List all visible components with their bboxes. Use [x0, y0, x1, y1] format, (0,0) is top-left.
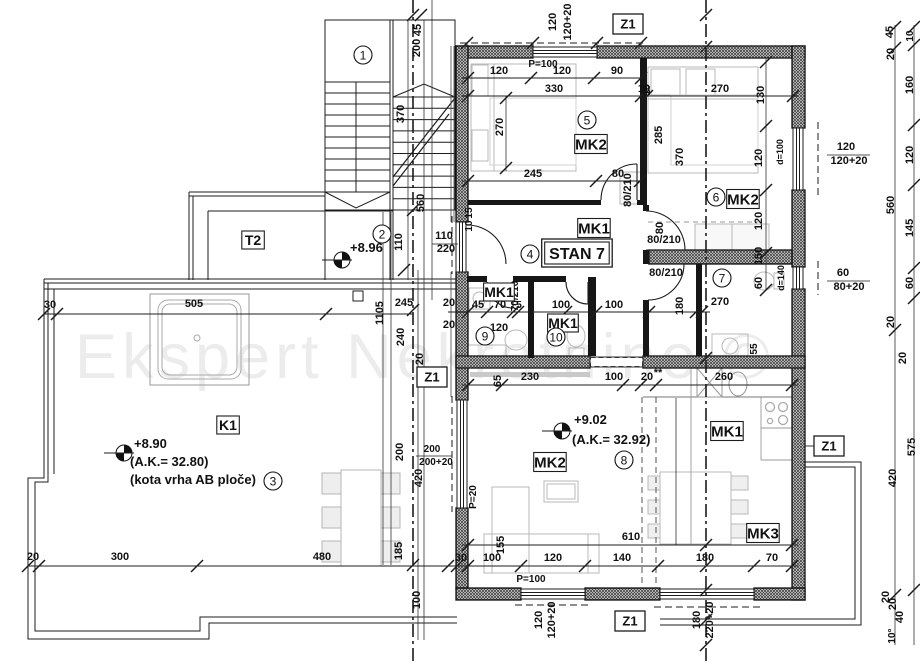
svg-text:610: 610: [622, 531, 640, 543]
svg-text:20: 20: [641, 371, 653, 383]
svg-text:180: 180: [696, 552, 714, 564]
svg-text:420: 420: [413, 469, 425, 487]
svg-text:270: 270: [494, 118, 506, 136]
svg-text:STAN 7: STAN 7: [549, 246, 605, 263]
svg-text:MK2: MK2: [575, 136, 607, 153]
svg-text:(kota vrha AB ploče): (kota vrha AB ploče): [130, 472, 256, 487]
svg-text:10°: 10°: [887, 628, 898, 643]
svg-text:130: 130: [755, 86, 767, 104]
svg-text:20: 20: [443, 319, 455, 331]
svg-text:120: 120: [547, 13, 559, 31]
svg-text:200+20: 200+20: [419, 457, 453, 468]
svg-text:575: 575: [906, 438, 918, 456]
svg-text:MK1: MK1: [484, 284, 514, 300]
svg-text:370: 370: [395, 105, 407, 123]
svg-text:160: 160: [904, 76, 916, 94]
svg-text:60: 60: [837, 267, 849, 279]
svg-text:100: 100: [552, 299, 570, 311]
svg-text:140: 140: [613, 552, 631, 564]
svg-text:80/210: 80/210: [649, 267, 683, 279]
svg-text:110: 110: [393, 233, 405, 251]
svg-text:120: 120: [753, 212, 765, 230]
svg-text:80: 80: [654, 222, 666, 234]
svg-text:145: 145: [904, 219, 916, 237]
svg-text:Z1: Z1: [424, 370, 439, 385]
svg-text:370: 370: [674, 148, 686, 166]
svg-text:20: 20: [897, 352, 909, 364]
svg-text:6: 6: [713, 190, 720, 204]
svg-text:(A.K.= 32.80): (A.K.= 32.80): [130, 454, 208, 469]
svg-text:+9.02: +9.02: [574, 412, 607, 427]
svg-text:185: 185: [393, 542, 405, 560]
svg-text:285: 285: [653, 126, 665, 144]
svg-text:100: 100: [605, 299, 623, 311]
svg-text:200: 200: [424, 444, 441, 455]
svg-text:30: 30: [455, 552, 467, 564]
svg-text:100: 100: [483, 552, 501, 564]
svg-text:2: 2: [379, 227, 386, 241]
svg-text:560: 560: [885, 196, 897, 214]
svg-text:300: 300: [111, 551, 129, 563]
svg-text:120+20: 120+20: [830, 155, 867, 167]
svg-text:480: 480: [313, 551, 331, 563]
svg-text:10: 10: [642, 84, 653, 96]
svg-text:(A.K.= 32.92): (A.K.= 32.92): [572, 432, 650, 447]
svg-text:220: 220: [437, 243, 455, 255]
svg-text:4: 4: [527, 247, 534, 261]
svg-text:110: 110: [435, 230, 453, 242]
svg-text:245: 245: [524, 168, 542, 180]
svg-text:P=100: P=100: [516, 574, 546, 585]
svg-text:K1: K1: [219, 417, 237, 433]
svg-text:505: 505: [185, 298, 203, 310]
svg-text:120: 120: [544, 552, 562, 564]
svg-text:10: 10: [905, 30, 916, 42]
svg-text:MK2: MK2: [727, 191, 759, 208]
svg-text:240: 240: [395, 328, 407, 346]
svg-text:P=100: P=100: [528, 59, 558, 70]
svg-text:45: 45: [472, 299, 484, 311]
svg-text:1105: 1105: [374, 301, 386, 325]
svg-text:120: 120: [837, 141, 855, 153]
svg-text:270: 270: [711, 296, 729, 308]
svg-text:180: 180: [691, 611, 703, 629]
svg-text:70: 70: [766, 552, 778, 564]
svg-text:20: 20: [885, 48, 897, 60]
svg-text:MK1: MK1: [711, 423, 743, 440]
svg-text:1: 1: [360, 48, 367, 62]
svg-text:15: 15: [464, 207, 475, 219]
svg-text:120: 120: [904, 146, 916, 164]
svg-text:65: 65: [492, 375, 504, 387]
svg-text:120+20: 120+20: [546, 601, 558, 638]
svg-text:3: 3: [270, 474, 277, 488]
svg-text:245: 245: [395, 297, 413, 309]
svg-text:20: 20: [27, 551, 39, 563]
svg-text:10: 10: [549, 330, 563, 344]
svg-text:MK2: MK2: [534, 454, 566, 471]
svg-text:P=20: P=20: [468, 485, 479, 509]
svg-text:30: 30: [44, 299, 56, 311]
svg-text:20: 20: [414, 353, 426, 365]
svg-text:330: 330: [545, 83, 563, 95]
svg-text:55: 55: [749, 343, 760, 355]
svg-text:80/210: 80/210: [622, 173, 634, 207]
svg-text:d=140: d=140: [776, 265, 786, 291]
svg-text:Z1: Z1: [622, 614, 637, 629]
svg-text:420: 420: [887, 469, 899, 487]
svg-text:20: 20: [887, 598, 899, 610]
svg-text:20: 20: [443, 297, 455, 309]
svg-text:260: 260: [715, 371, 733, 383]
svg-text:180: 180: [674, 297, 686, 315]
svg-text:45: 45: [412, 24, 424, 36]
svg-text:Z1: Z1: [821, 439, 836, 454]
svg-text:90: 90: [611, 65, 623, 77]
svg-text:MK1: MK1: [578, 220, 610, 237]
svg-text:T2: T2: [245, 232, 262, 248]
svg-text:10: 10: [464, 220, 475, 232]
svg-text:80/210: 80/210: [647, 234, 681, 246]
svg-text:120: 120: [490, 65, 508, 77]
svg-text:270: 270: [711, 83, 729, 95]
svg-text:100: 100: [605, 371, 623, 383]
svg-text:120: 120: [533, 611, 545, 629]
svg-text:**: **: [654, 367, 663, 379]
svg-text:120: 120: [753, 149, 765, 167]
svg-text:120+20: 120+20: [562, 3, 574, 40]
svg-text:20: 20: [885, 316, 897, 328]
svg-text:230: 230: [521, 371, 539, 383]
svg-text:Z1: Z1: [620, 17, 635, 32]
svg-text:8: 8: [621, 453, 628, 467]
svg-text:+8.90: +8.90: [134, 436, 167, 451]
svg-text:9: 9: [482, 329, 489, 343]
svg-text:60: 60: [904, 277, 916, 289]
svg-text:80+20: 80+20: [834, 281, 865, 293]
svg-text:d=100: d=100: [775, 139, 785, 165]
svg-text:60: 60: [753, 277, 765, 289]
svg-text:100: 100: [411, 591, 423, 609]
svg-text:7: 7: [719, 271, 726, 285]
svg-text:560: 560: [415, 194, 427, 212]
svg-text:200: 200: [394, 443, 406, 461]
svg-text:5: 5: [584, 113, 591, 127]
svg-text:200: 200: [411, 39, 423, 57]
svg-text:40: 40: [894, 611, 906, 623]
svg-text:MK3: MK3: [747, 525, 779, 542]
